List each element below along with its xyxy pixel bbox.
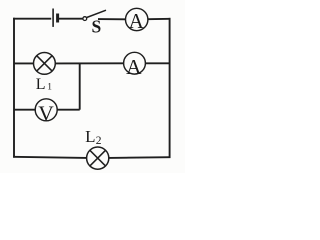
- svg-text:L: L: [85, 127, 95, 146]
- svg-text:S: S: [92, 16, 102, 36]
- svg-text:2: 2: [96, 135, 102, 147]
- svg-text:A: A: [126, 55, 142, 79]
- svg-text:A: A: [129, 9, 145, 33]
- svg-text:L: L: [36, 76, 46, 93]
- svg-text:1: 1: [47, 83, 52, 93]
- svg-text:V: V: [38, 102, 54, 126]
